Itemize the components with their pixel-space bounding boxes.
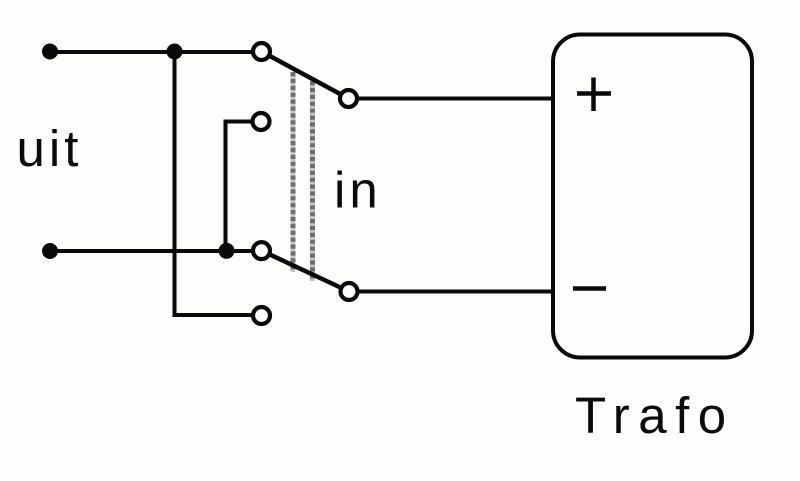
minus terminal mark bbox=[573, 286, 606, 291]
plus terminal mark bbox=[577, 78, 611, 112]
junction dot uit bottom left bbox=[42, 243, 58, 259]
svg-text:in: in bbox=[334, 162, 382, 219]
terminal circle pole 2 bbox=[341, 283, 358, 300]
junction dot uit top left bbox=[42, 44, 58, 60]
junction dot bottom tee bbox=[219, 243, 235, 259]
svg-text:Trafo: Trafo bbox=[575, 387, 735, 444]
terminal circle pole 1 bbox=[340, 90, 357, 107]
wire from upper-lower throw down to bottom junction bbox=[226, 122, 262, 252]
svg-text:uit: uit bbox=[17, 120, 83, 177]
terminal circle throw 2 down bbox=[253, 307, 270, 324]
wire switch pole 2 to trafo minus bbox=[349, 290, 553, 294]
switch linkage dashed right bbox=[310, 81, 315, 281]
terminal circle throw 1 down bbox=[253, 113, 270, 130]
wire top output (y=52) bbox=[50, 50, 261, 54]
junction dot top tee bbox=[167, 44, 183, 60]
terminal circle throw 2 up bbox=[253, 242, 270, 259]
wire bottom output (y=251) bbox=[50, 249, 261, 253]
transformer box Trafo bbox=[553, 35, 752, 358]
switch linkage dashed left bbox=[291, 72, 296, 272]
switch blade S1b bbox=[262, 251, 350, 292]
wire switch pole 1 to trafo plus bbox=[349, 97, 554, 101]
switch blade S1a bbox=[262, 52, 349, 99]
wire left vertical from top junction down and right to lower throw bbox=[175, 52, 262, 315]
terminal circle throw 1 up bbox=[253, 43, 270, 60]
